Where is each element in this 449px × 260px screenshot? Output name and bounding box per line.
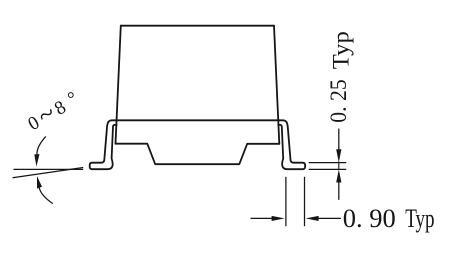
angle arc lower tail bbox=[39, 188, 53, 204]
angle upper arrowhead bbox=[34, 154, 39, 166]
body right edge bbox=[274, 26, 279, 144]
0.90 extension line left bbox=[285, 177, 287, 226]
svg-text:Typ: Typ bbox=[405, 203, 434, 233]
svg-text:Typ: Typ bbox=[329, 31, 355, 69]
0.25 dim line connector through ext lines bbox=[338, 162, 340, 171]
dim text 0.25 Typ (rotated) bbox=[326, 31, 355, 123]
0.25 upper arrowhead bbox=[336, 149, 341, 162]
angle lower arrowhead bbox=[37, 176, 42, 189]
0.25 dim line upper bbox=[338, 129, 340, 152]
0.90 right arrowhead bbox=[306, 216, 319, 221]
0.25 lower arrowhead bbox=[336, 169, 341, 182]
leads (left gull-wing, shared top line, right gull-wing) bbox=[90, 120, 305, 169]
0.25 extension line top bbox=[309, 162, 347, 164]
svg-text:0. 25: 0. 25 bbox=[326, 79, 352, 123]
angle slanted line bbox=[13, 168, 84, 178]
angle reference horizontal line bbox=[14, 168, 84, 170]
0.90 dim line right bbox=[318, 217, 341, 219]
angle arc upper tail bbox=[37, 136, 46, 154]
body left edge bbox=[116, 26, 121, 144]
0.25 extension line bottom bbox=[309, 168, 347, 170]
0.90 dim line left bbox=[251, 217, 274, 219]
svg-text:0~8°: 0~8° bbox=[22, 83, 88, 139]
dim text 0.90 Typ bbox=[343, 203, 435, 233]
0.90 extension line right bbox=[304, 177, 306, 226]
0.25 dim line lower bbox=[338, 182, 340, 200]
0.90 left arrowhead bbox=[272, 216, 285, 221]
body top edge bbox=[121, 25, 274, 27]
svg-text:0. 90: 0. 90 bbox=[343, 203, 396, 233]
body bottom outline bbox=[116, 144, 280, 165]
